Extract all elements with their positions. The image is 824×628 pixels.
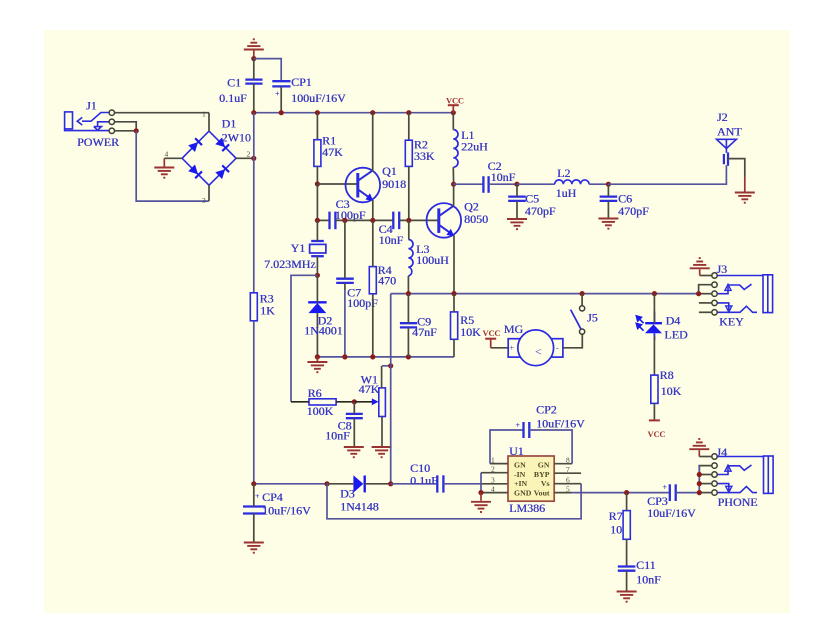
svg-text:10nF: 10nF bbox=[491, 170, 516, 184]
svg-text:+: + bbox=[663, 483, 668, 492]
svg-text:VCC: VCC bbox=[483, 328, 501, 338]
svg-text:+: + bbox=[255, 492, 260, 501]
wire bridge bottom stub bbox=[208, 185, 210, 201]
svg-text:0.1uF: 0.1uF bbox=[410, 474, 438, 488]
svg-text:+IN: +IN bbox=[514, 479, 527, 488]
svg-text:100uH: 100uH bbox=[416, 253, 449, 267]
svg-text:1uH: 1uH bbox=[556, 186, 577, 200]
svg-text:J4: J4 bbox=[716, 445, 727, 459]
node J4 pin5 bbox=[697, 490, 702, 495]
wire C10 to U1 pin3 bbox=[443, 483, 481, 485]
svg-text:PHONE: PHONE bbox=[718, 495, 758, 509]
pin C8 bottom bbox=[353, 418, 355, 446]
wire D3 to C10 bbox=[391, 483, 437, 485]
svg-text:10nF: 10nF bbox=[325, 429, 350, 443]
J1 pin circles bbox=[109, 110, 114, 134]
svg-text:10nF: 10nF bbox=[379, 233, 404, 247]
svg-text:9018: 9018 bbox=[382, 177, 406, 191]
ground below C5 bbox=[507, 219, 527, 229]
svg-text:0.1uF: 0.1uF bbox=[219, 91, 247, 105]
wire J1 pin1 to bridge bbox=[115, 112, 210, 114]
svg-text:GN: GN bbox=[514, 461, 526, 470]
node key J5 bbox=[580, 291, 585, 296]
pin J4 3 stub bbox=[699, 474, 712, 476]
wire VCC to MG bbox=[491, 347, 509, 349]
pin D2 top bbox=[316, 275, 318, 302]
wire main left vertical lower bbox=[253, 321, 255, 484]
wire CP2 right bbox=[529, 430, 572, 464]
pin R1 bottom bbox=[316, 166, 318, 184]
pin W1 bottom bbox=[381, 417, 383, 447]
resistor R6 bbox=[309, 399, 336, 405]
pin D3 left bbox=[327, 483, 353, 485]
node gnd rail D2 bbox=[315, 354, 320, 359]
pin U1 7 stub bbox=[554, 472, 581, 474]
node R7 top bbox=[624, 490, 629, 495]
wire C5 to L2 bbox=[517, 183, 555, 185]
node Q1 emitter junction bbox=[370, 218, 375, 223]
svg-text:J3: J3 bbox=[716, 262, 727, 276]
pin C5 bottom bbox=[516, 201, 518, 218]
emitter arrow Q1 bbox=[365, 193, 373, 201]
wire C2 left bbox=[454, 183, 484, 185]
wire bridge top stub bbox=[208, 113, 210, 131]
svg-text:10uF/16V: 10uF/16V bbox=[262, 504, 311, 518]
diode D1b top-right bbox=[215, 137, 229, 151]
node rail L1 bbox=[451, 110, 456, 115]
wire MG to J5 bbox=[563, 334, 582, 348]
ground at bridge pin4 bbox=[163, 158, 165, 166]
svg-text:U1: U1 bbox=[509, 444, 524, 458]
pin L3 bottom bbox=[407, 276, 409, 294]
svg-text:1: 1 bbox=[491, 456, 495, 465]
node L1 C2 Q2 bbox=[451, 182, 456, 187]
svg-text:VCC: VCC bbox=[648, 429, 666, 439]
pin C11 bottom bbox=[626, 571, 628, 591]
svg-text:CP1: CP1 bbox=[291, 75, 312, 89]
svg-text:1K: 1K bbox=[260, 303, 275, 317]
svg-text:470pF: 470pF bbox=[525, 204, 556, 218]
pin J4 4 stub bbox=[699, 483, 712, 485]
node top ground junction bbox=[251, 56, 256, 61]
svg-text:2: 2 bbox=[247, 150, 251, 159]
pin Y1 bottom bbox=[316, 256, 318, 275]
potentiometer W1 body bbox=[379, 388, 386, 417]
svg-text:2: 2 bbox=[491, 465, 495, 474]
resistor R1 bbox=[314, 140, 321, 167]
node J3 key bbox=[696, 291, 701, 296]
ground below C11 bbox=[617, 592, 637, 602]
pin D2 bottom bbox=[316, 313, 318, 357]
pin J3 5 stub bbox=[699, 311, 712, 313]
svg-text:C1: C1 bbox=[227, 76, 241, 90]
node Y1 bottom bbox=[315, 273, 320, 278]
transistor Q2 8050 bbox=[427, 203, 462, 238]
pin Q2 emitter bbox=[453, 236, 455, 294]
svg-text:POWER: POWER bbox=[77, 135, 119, 149]
op-amp U1 LM386 box bbox=[508, 456, 554, 501]
svg-text:33K: 33K bbox=[414, 149, 435, 163]
svg-text:10nF: 10nF bbox=[636, 572, 661, 586]
pin J3 2 jog bbox=[699, 285, 712, 294]
pin CP4 top bbox=[253, 484, 255, 507]
J3 ring arrow down bbox=[726, 306, 732, 312]
wire J1 to bridge bottom bbox=[136, 131, 209, 201]
resistor R7 bbox=[623, 511, 630, 540]
node key R5 bbox=[451, 291, 456, 296]
svg-text:7: 7 bbox=[566, 465, 570, 474]
svg-text:D3: D3 bbox=[340, 487, 355, 501]
wire CP2 loop bbox=[490, 430, 523, 464]
capacitor CP3 polarized bbox=[670, 484, 676, 501]
svg-text:<: < bbox=[535, 345, 542, 359]
pin D3 right bbox=[365, 483, 391, 485]
node key C9 bbox=[406, 291, 411, 296]
capacitor C2 bbox=[483, 176, 488, 193]
node R6 C8 bbox=[352, 399, 357, 404]
pin C5 top bbox=[516, 184, 518, 196]
svg-text:6: 6 bbox=[566, 476, 570, 485]
pin R8 bottom bbox=[653, 403, 655, 420]
svg-text:-IN: -IN bbox=[514, 470, 526, 479]
pin L3 top bbox=[408, 220, 410, 239]
svg-text:CP4: CP4 bbox=[262, 490, 283, 504]
node J4 pin3 bbox=[697, 472, 702, 477]
resistor R3 bbox=[250, 293, 257, 321]
svg-text:8: 8 bbox=[566, 456, 570, 465]
pin C6 bottom bbox=[607, 201, 609, 218]
transistor Q1 9018 bbox=[346, 168, 381, 203]
capacitor C3 bbox=[330, 212, 336, 230]
node key D4 bbox=[652, 291, 657, 296]
svg-text:3: 3 bbox=[491, 476, 495, 485]
svg-text:Q1: Q1 bbox=[382, 164, 397, 178]
wire Y1 node to R6 branch bbox=[291, 275, 317, 402]
node audio CP4 bbox=[251, 481, 256, 486]
pin R7 top bbox=[626, 493, 628, 511]
wire oscillator row y220 bbox=[317, 219, 329, 221]
wiper wire to W1 bbox=[354, 401, 375, 403]
resistor R8 bbox=[651, 375, 658, 403]
pin R2 bottom bbox=[408, 166, 410, 220]
svg-text:10: 10 bbox=[610, 522, 622, 536]
wire C3 to C4 bbox=[335, 219, 393, 221]
ground below C6 bbox=[598, 219, 618, 229]
svg-text:7.023MHz: 7.023MHz bbox=[264, 257, 316, 271]
wire C2 to C5 bbox=[489, 183, 517, 185]
capacitor C5 bbox=[508, 197, 526, 201]
pin Y1 top bbox=[316, 220, 318, 241]
svg-text:J2: J2 bbox=[717, 110, 728, 124]
switch J5 bbox=[580, 306, 585, 334]
svg-text:10uF/16V: 10uF/16V bbox=[536, 417, 585, 431]
power VCC top bbox=[448, 104, 459, 106]
bridge rectifier D1 bbox=[182, 131, 236, 185]
svg-text:1N4001: 1N4001 bbox=[304, 324, 343, 338]
emitter arrow Q2 bbox=[446, 229, 454, 237]
svg-text:22uH: 22uH bbox=[461, 140, 488, 154]
pin Q1 emitter bbox=[372, 200, 374, 220]
capacitor C11 bbox=[618, 567, 636, 571]
node W1 tap bbox=[388, 363, 393, 368]
svg-text:100uF/16V: 100uF/16V bbox=[291, 91, 346, 105]
pin Q1 collector bbox=[372, 113, 374, 172]
pin C9 top bbox=[407, 294, 409, 324]
pin R6 left bbox=[291, 401, 309, 403]
pin R2 top bbox=[408, 113, 410, 141]
node C7 top bbox=[342, 218, 347, 223]
pin U1 6 stub bbox=[554, 483, 581, 485]
node audio D3 bbox=[324, 481, 329, 486]
ground below D2 bbox=[316, 357, 318, 361]
wire Vs feed bbox=[327, 484, 581, 519]
svg-text:1N4148: 1N4148 bbox=[340, 500, 379, 514]
wire J2 ground jog bbox=[728, 159, 745, 177]
wire L2 to C6 bbox=[589, 183, 608, 185]
ground below CP4 bbox=[244, 543, 264, 553]
inductor L1 bbox=[453, 130, 458, 168]
svg-text:R8: R8 bbox=[660, 368, 674, 382]
LED D4 bbox=[645, 312, 662, 341]
pin U1 1 stub bbox=[490, 463, 508, 465]
pin J3 1 stub bbox=[700, 275, 712, 277]
pin R7 bottom bbox=[626, 539, 628, 566]
wire audio line left bbox=[254, 483, 327, 485]
svg-text:+: + bbox=[516, 421, 521, 430]
diode D2 bbox=[308, 302, 326, 313]
svg-text:ANT: ANT bbox=[717, 125, 742, 139]
node R1 base bbox=[315, 181, 320, 186]
wire J1 pin2 jog bbox=[115, 122, 137, 131]
svg-text:BYP: BYP bbox=[534, 470, 550, 479]
wire audio out bbox=[572, 492, 669, 494]
ground above J3 bbox=[699, 269, 701, 275]
node C6 top bbox=[606, 182, 611, 187]
pin C1 bottom bbox=[253, 84, 255, 113]
node rail C1 bbox=[251, 110, 256, 115]
node J4 pin4 bbox=[697, 481, 702, 486]
pin J4 5 stub bbox=[699, 492, 712, 494]
ground top center bbox=[244, 39, 264, 49]
connector J3 KEY jack bbox=[717, 275, 772, 313]
capacitor CP2 polarized bbox=[524, 422, 530, 438]
pin J5 top bbox=[581, 294, 583, 306]
capacitor C7 bbox=[336, 279, 354, 283]
node rail R1 bbox=[315, 110, 320, 115]
pin C7 bottom bbox=[344, 283, 346, 290]
pin D4 top bbox=[653, 294, 655, 324]
pin U1 pin3 stub bbox=[481, 483, 508, 485]
pin C8 top bbox=[353, 402, 355, 414]
svg-text:C11: C11 bbox=[636, 558, 656, 572]
svg-text:Vout: Vout bbox=[534, 488, 550, 497]
ground below U1 bbox=[480, 493, 482, 501]
svg-text:KEY: KEY bbox=[719, 315, 744, 329]
ground below C8 bbox=[344, 447, 364, 457]
svg-text:10uF/16V: 10uF/16V bbox=[647, 506, 696, 520]
node C5 top bbox=[514, 182, 519, 187]
pin R5 top bbox=[453, 294, 455, 312]
node C3 left bbox=[315, 218, 320, 223]
pin C7 top bbox=[344, 220, 346, 278]
J4 pin circles bbox=[712, 454, 717, 496]
node gnd rail R4 bbox=[370, 354, 375, 359]
pin L1 top bbox=[452, 113, 454, 130]
J4 ring arrow down bbox=[726, 486, 732, 492]
wire bridge left stub bbox=[164, 157, 182, 159]
node rail Q1 bbox=[370, 110, 375, 115]
capacitor C1 bbox=[245, 80, 262, 84]
wire ground stub to node bbox=[253, 51, 255, 59]
svg-text:+: + bbox=[275, 90, 280, 99]
svg-text:CP2: CP2 bbox=[536, 403, 557, 417]
crystal Y1 bbox=[310, 241, 326, 256]
wire key line bbox=[391, 293, 699, 295]
svg-text:47K: 47K bbox=[359, 382, 380, 396]
pin C6 top bbox=[607, 184, 609, 196]
wire R1 node down to C3 node bbox=[316, 184, 318, 220]
node gnd rail C7 bbox=[342, 354, 347, 359]
pin D4 bottom bbox=[653, 336, 655, 375]
pin U1 5 stub bbox=[554, 492, 572, 494]
svg-text:VCC: VCC bbox=[446, 96, 464, 106]
J3 tip arrow up bbox=[725, 284, 731, 290]
wiper arrow W1 bbox=[372, 398, 379, 405]
svg-text:10K: 10K bbox=[460, 325, 481, 339]
pin W1 top bbox=[381, 366, 383, 388]
pin R4 bottom bbox=[372, 294, 374, 357]
pin U1 2 stub bbox=[481, 472, 508, 474]
pin R4 top bbox=[372, 220, 374, 266]
svg-text:J1: J1 bbox=[86, 99, 97, 113]
pin U1 4 stub bbox=[481, 492, 508, 494]
wire base to Q1 bbox=[317, 183, 357, 185]
svg-text:LED: LED bbox=[664, 328, 688, 342]
svg-text:3: 3 bbox=[202, 196, 206, 205]
pin CP1 bottom bbox=[280, 86, 282, 112]
svg-text:47nF: 47nF bbox=[412, 325, 437, 339]
svg-text:4: 4 bbox=[165, 150, 169, 159]
diode D1c bottom-left bbox=[188, 165, 202, 179]
connector J1 bbox=[65, 112, 109, 131]
pin J3 4 stub bbox=[699, 302, 712, 304]
pin R6 right bbox=[336, 401, 354, 403]
inductor L3 bbox=[408, 240, 413, 277]
wire key line left vertical bbox=[390, 294, 392, 484]
node J1 pin3 junction bbox=[134, 128, 139, 133]
pin R5 bottom bbox=[453, 339, 455, 357]
wire ground rail bbox=[317, 356, 454, 358]
node R2 L3 bbox=[406, 218, 411, 223]
wire J1 pin3 bbox=[115, 130, 137, 132]
pin R1 top bbox=[316, 113, 318, 140]
diode D1a top-left bbox=[188, 138, 202, 152]
resistor R4 bbox=[369, 267, 376, 294]
capacitor C8 bbox=[346, 414, 363, 418]
pin L1 bottom bbox=[452, 167, 454, 184]
pin J4 2 jog bbox=[699, 466, 712, 475]
wire CP3 to J4 bbox=[676, 492, 700, 494]
capacitor C6 bbox=[600, 197, 618, 201]
wire C4 to Q2 base bbox=[399, 219, 439, 221]
power VCC R8 bbox=[649, 419, 660, 421]
capacitor C10 bbox=[437, 475, 443, 492]
svg-text:470pF: 470pF bbox=[618, 204, 649, 218]
wire J4 common vertical bbox=[698, 466, 700, 493]
ground above J4 bbox=[698, 450, 700, 456]
wire main left vertical upper bbox=[253, 158, 255, 292]
wire bridge+ vertical bbox=[253, 113, 255, 159]
microphone MG bbox=[508, 330, 563, 366]
antenna J2 bbox=[717, 139, 737, 166]
switch J5 blade bbox=[571, 310, 581, 330]
svg-text:4: 4 bbox=[491, 485, 495, 494]
svg-text:GN: GN bbox=[538, 461, 550, 470]
svg-text:R6: R6 bbox=[308, 386, 322, 400]
diode D3 bbox=[353, 475, 364, 492]
svg-text:R7: R7 bbox=[609, 509, 623, 523]
svg-text:100K: 100K bbox=[307, 404, 334, 418]
capacitor C4 bbox=[393, 212, 399, 230]
svg-text:1: 1 bbox=[202, 110, 206, 119]
resistor R5 bbox=[451, 312, 458, 339]
wire VCC rail bbox=[254, 112, 453, 114]
svg-text:5: 5 bbox=[566, 485, 570, 494]
wire bridge right stub bbox=[236, 157, 254, 159]
node gnd rail C9 bbox=[406, 354, 411, 359]
svg-text:470: 470 bbox=[378, 274, 396, 288]
svg-text:2W10: 2W10 bbox=[222, 131, 251, 145]
node rail R2 bbox=[406, 110, 411, 115]
wire C6 to J2 bbox=[608, 165, 726, 184]
svg-text:LM386: LM386 bbox=[509, 501, 545, 515]
wire W1 top jog bbox=[382, 365, 391, 367]
pin CP4 bottom bbox=[253, 514, 255, 542]
svg-text:D4: D4 bbox=[666, 313, 681, 327]
svg-text:Y1: Y1 bbox=[291, 241, 306, 255]
svg-text:MG: MG bbox=[504, 322, 524, 336]
svg-text:47K: 47K bbox=[322, 145, 343, 159]
svg-text:L2: L2 bbox=[557, 166, 570, 180]
svg-text:8050: 8050 bbox=[464, 212, 488, 226]
svg-text:D1: D1 bbox=[222, 117, 237, 131]
wire gnd node to CP1 branch bbox=[254, 59, 281, 82]
capacitor CP1 polarized bbox=[272, 81, 290, 86]
node rail CP1 bbox=[279, 110, 284, 115]
pin C1 top bbox=[253, 59, 255, 80]
svg-text:-: - bbox=[556, 344, 559, 353]
svg-text:Vs: Vs bbox=[541, 479, 550, 488]
ground below W1 bbox=[372, 447, 392, 457]
pin C9 bottom bbox=[407, 327, 409, 357]
node U1 gnd bbox=[478, 490, 483, 495]
pin J3 3 stub bbox=[699, 293, 712, 295]
inductor L2 bbox=[555, 180, 589, 184]
pin Q2 collector bbox=[453, 184, 455, 206]
capacitor C9 bbox=[400, 323, 417, 327]
node bridge pin2 bbox=[251, 156, 256, 161]
pin U1 8 stub bbox=[554, 463, 572, 465]
LED D4 arrows bbox=[636, 316, 643, 331]
capacitor CP4 polarized bbox=[243, 507, 266, 514]
wire U1 pin2 to pin4 bbox=[480, 473, 482, 493]
svg-text:J5: J5 bbox=[587, 311, 598, 325]
node audio W1 branch bbox=[388, 481, 393, 486]
svg-text:+: + bbox=[510, 344, 515, 353]
connector J4 PHONE jack bbox=[717, 456, 773, 493]
ground below J2 bbox=[735, 193, 755, 203]
J4 tip arrow up bbox=[725, 465, 731, 471]
